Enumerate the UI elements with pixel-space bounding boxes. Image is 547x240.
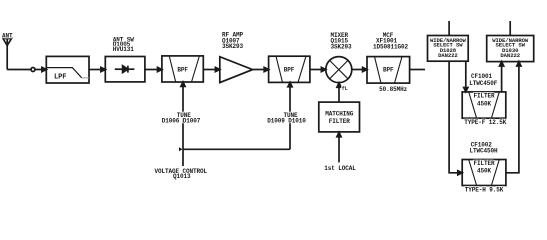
svg-text:FILTER: FILTER <box>329 118 351 125</box>
wire voltage control stub <box>182 149 184 166</box>
label WIDE/NARROW SELECT SW D1028 DAN222 <box>430 37 467 59</box>
wire BPF2 tune <box>288 82 292 149</box>
wire MCF output stub <box>410 69 425 71</box>
wire BPF1 to amp <box>203 69 215 71</box>
wire connector to LPF <box>35 69 42 71</box>
BPF1 box <box>162 56 203 82</box>
svg-text:BPF: BPF <box>177 67 188 74</box>
LPF response curve <box>46 68 81 78</box>
svg-text:D1006 D1007: D1006 D1007 <box>162 118 201 125</box>
wire D1028 to filter CF1001 <box>464 61 468 92</box>
label MIXER Q1015 3SK293 <box>331 32 353 51</box>
filter CF1001 box <box>462 92 506 118</box>
svg-text:1D50811G02: 1D50811G02 <box>373 44 409 51</box>
svg-text:LTWC450F: LTWC450F <box>469 80 498 87</box>
filter CF1002 box <box>462 160 506 186</box>
wire BPF1 tune <box>181 82 185 149</box>
connector circle <box>31 68 35 72</box>
wire tune horizontal <box>183 148 290 150</box>
label WIDE/NARROW SELECT SW D1030 DAN222 <box>492 37 529 59</box>
svg-text:DAN222: DAN222 <box>500 52 520 59</box>
label RF AMP Q1007 3SK293 <box>222 31 244 50</box>
label TUNE D1006 D1007 <box>162 112 201 125</box>
svg-text:450K: 450K <box>477 101 492 108</box>
label CF1002 LTWC450H <box>469 141 498 154</box>
wire D1030 top stub <box>509 21 511 36</box>
label FILTER 450K CF1002 <box>473 160 495 175</box>
wire D1028 top stub <box>448 21 450 36</box>
diode D1005 <box>115 66 135 73</box>
wire mixer to MCF <box>352 69 363 71</box>
svg-text:450K: 450K <box>477 167 492 174</box>
label ANT SW D1005 HVU131 <box>113 36 135 53</box>
svg-text:TYPE-H 9.5K: TYPE-H 9.5K <box>465 186 504 193</box>
wire ANT SW to BPF1 <box>145 69 158 71</box>
label MATCHING FILTER <box>325 111 354 125</box>
svg-text:3SK293: 3SK293 <box>222 43 244 50</box>
node tune junction <box>179 147 183 151</box>
LPF box <box>46 56 89 83</box>
svg-text:BPF: BPF <box>284 67 295 74</box>
MCF box XF1001 <box>367 57 410 84</box>
svg-text:FILTER: FILTER <box>473 160 495 167</box>
svg-text:D1009 D1010: D1009 D1010 <box>267 118 306 125</box>
svg-text:CF1001: CF1001 <box>471 73 493 80</box>
svg-text:HVU131: HVU131 <box>113 46 135 53</box>
label VOLTAGE CONTROL Q1013 <box>154 168 207 180</box>
wire 1st local input <box>337 132 341 162</box>
svg-text:50.85MHz: 50.85MHz <box>379 86 408 93</box>
svg-text:BPF: BPF <box>383 67 394 74</box>
wire amp to BPF2 <box>253 69 265 71</box>
label CF1001 LTWC450F <box>469 73 498 87</box>
switch box WIDE/NARROW SELECT SW D1028 <box>428 36 469 62</box>
svg-text:TYPE-F 12.5K: TYPE-F 12.5K <box>464 119 507 126</box>
svg-text:3SK293: 3SK293 <box>331 43 353 50</box>
svg-text:DAN222: DAN222 <box>438 52 458 59</box>
svg-text:FILTER: FILTER <box>473 92 495 99</box>
svg-text:ANT: ANT <box>2 33 13 40</box>
wire 1st local to mixer <box>337 83 341 102</box>
BPF2 box <box>269 56 310 82</box>
switch box WIDE/NARROW SELECT SW D1030 <box>487 36 534 62</box>
label MCF XF1001 1D50811G02 <box>373 32 409 51</box>
matching filter box <box>319 102 360 132</box>
wire antenna to connector <box>7 69 31 71</box>
wire CF1001 to D1030 <box>500 62 504 92</box>
svg-text:Q1013: Q1013 <box>173 173 191 180</box>
svg-text:fL: fL <box>342 86 348 92</box>
svg-text:LTWC450H: LTWC450H <box>469 147 498 154</box>
label TUNE D1009 D1010 <box>267 112 306 125</box>
wire D1028 to filter CF1002 <box>449 61 458 173</box>
label FILTER 450K CF1001 <box>473 92 495 107</box>
wire CF1002 to D1030 <box>506 62 521 173</box>
ANT SW box D1005 <box>105 57 145 82</box>
wire LPF to ANT SW <box>89 69 101 71</box>
svg-text:LPF: LPF <box>54 74 66 82</box>
mixer Q1015 <box>326 57 352 83</box>
svg-text:MATCHING: MATCHING <box>325 111 354 118</box>
op-amp RF AMP Q1007 <box>220 57 253 83</box>
antenna ANT <box>3 39 12 70</box>
wire BPF2 to mixer <box>310 69 322 71</box>
svg-text:1st LOCAL: 1st LOCAL <box>324 165 356 172</box>
